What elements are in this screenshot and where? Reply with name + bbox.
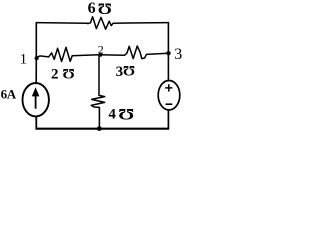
svg-text:Ω: Ω <box>123 62 135 78</box>
node 1 junction <box>35 56 39 60</box>
svg-text:1: 1 <box>20 52 28 68</box>
resistor 2 mho <box>49 47 75 61</box>
top wire right segment <box>113 22 168 25</box>
minus sign <box>166 103 173 105</box>
bottom junction <box>97 126 102 131</box>
svg-text:Ω: Ω <box>97 0 111 17</box>
svg-text:2: 2 <box>51 67 59 83</box>
wire right vertical lower <box>167 110 169 130</box>
current source arrow <box>35 95 37 109</box>
top wire left segment <box>36 22 87 25</box>
resistor 4 mho (vertical) <box>91 95 105 107</box>
svg-text:3: 3 <box>116 64 124 80</box>
middle wire node2 to 3mho <box>99 54 125 56</box>
bottom wire <box>36 128 170 130</box>
svg-text:Ω: Ω <box>118 105 134 122</box>
middle wire node1 to 2mho <box>37 56 49 58</box>
wire left vertical upper <box>35 22 37 58</box>
wire left vertical lower <box>35 116 37 129</box>
node 3 junction <box>166 51 170 55</box>
wire middle vertical 4mho to bottom <box>98 107 100 129</box>
svg-text:6: 6 <box>88 0 96 17</box>
svg-text:3: 3 <box>174 46 182 63</box>
resistor 3 mho <box>125 46 149 59</box>
current source I1 6A <box>23 83 49 116</box>
voltage source V1 <box>158 81 180 110</box>
wire right vertical upper <box>167 22 169 81</box>
svg-text:6A: 6A <box>1 87 17 102</box>
node 2 junction <box>99 53 102 56</box>
wire left vertical to current source <box>35 58 37 83</box>
middle wire 2mho to node2 <box>75 54 99 57</box>
middle wire 3mho to node3 <box>149 53 169 54</box>
resistor 6 mho (top) <box>88 17 114 29</box>
svg-text:4: 4 <box>108 107 116 123</box>
wire middle vertical node2 to 4mho <box>98 55 100 96</box>
svg-text:Ω: Ω <box>63 65 75 81</box>
plus sign <box>165 84 172 91</box>
